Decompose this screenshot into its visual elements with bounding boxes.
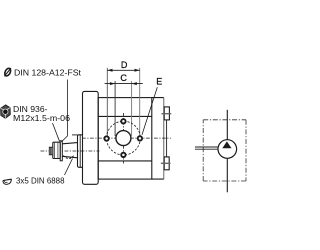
dimension line C (105, 83, 143, 85)
pump body (98, 98, 152, 180)
hub chamfer line (79, 135, 81, 168)
nut chamfer line 1 (54, 142, 56, 158)
vertical centerline main view (122, 113, 124, 164)
port thread tick top (162, 113, 172, 115)
symbol flow line vertical top (226, 110, 228, 140)
hydraulic symbol frame (dash-dot) (203, 120, 246, 181)
thread hatch (49, 147, 51, 154)
woodruff key hidden arc (63, 156, 73, 159)
leader line DIN936 to nut (53, 123, 60, 141)
icon woodruff key DIN6888 (3, 179, 11, 184)
leader line E to bolt hole (142, 87, 157, 134)
symbol pump circle (218, 140, 237, 159)
hex nut DIN 936 (53, 142, 60, 158)
dimension C arrows (outside) (110, 82, 115, 85)
washer DIN 128 (60, 141, 62, 161)
bolt hole bottom (121, 153, 125, 157)
dimension D arrows (107, 69, 231, 148)
port boss bottom (164, 157, 169, 170)
tapered shaft top edge (62, 143, 77, 144)
horizontal centerline main view (82, 137, 171, 139)
thread stub (49, 147, 53, 155)
bolt hole right (E) (138, 136, 142, 140)
svg-text:E: E (156, 76, 162, 86)
svg-text:M12x1.5-m-06: M12x1.5-m-06 (13, 113, 70, 123)
svg-text:D: D (121, 60, 128, 70)
central pilot circle (116, 131, 131, 146)
svg-text:C: C (120, 73, 127, 83)
shaft hub on flange (78, 135, 83, 168)
bolt hole top (121, 119, 125, 123)
body contour line / C extension right (131, 81, 133, 136)
body lower horizontal edge (98, 160, 152, 162)
nut chamfer line 2 (57, 142, 59, 158)
port boss top (164, 107, 169, 120)
svg-text:3x5 DIN 6888: 3x5 DIN 6888 (16, 175, 65, 185)
symbol drive shaft double line (195, 146, 218, 148)
icon hex nut DIN936 (1, 105, 11, 119)
shaft centerline (41, 150, 100, 152)
body contour line / D extension right (139, 68, 141, 136)
symbol triangle (222, 141, 231, 148)
icon washer DIN128 (split lock washer) (4, 67, 12, 77)
dimension line D (107, 69, 139, 71)
leader line DIN6888 to key (65, 159, 73, 176)
port face edge between bosses (166, 120, 168, 157)
port thread tick bottom (161, 162, 171, 164)
bolt hole left (104, 136, 108, 140)
flange plate (83, 91, 99, 184)
shaft step edge (72, 134, 77, 136)
svg-text:DIN 128-A12-FSt: DIN 128-A12-FSt (14, 67, 82, 77)
leader line DIN128 (vertical + bend to washer) (61, 80, 67, 143)
bolt circle (dashed) (107, 121, 141, 155)
symbol flow line vertical bottom (226, 158, 228, 192)
body contour line / D extension left (106, 68, 108, 136)
tapered shaft bottom edge (62, 156, 77, 158)
body upper horizontal edge (98, 115, 152, 117)
body contour line / C extension left (114, 81, 116, 136)
rear cover (152, 98, 164, 180)
